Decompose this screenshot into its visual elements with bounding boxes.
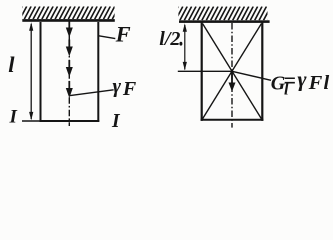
svg-text:l: l <box>8 52 15 77</box>
svg-text:F: F <box>122 78 137 100</box>
svg-text:γ: γ <box>297 67 307 92</box>
svg-text:Fl: Fl <box>308 72 331 94</box>
svg-text:I: I <box>9 107 18 128</box>
svg-text:=: = <box>283 68 296 93</box>
svg-text:l/2: l/2 <box>159 28 180 50</box>
svg-text:F: F <box>115 22 131 47</box>
svg-text:γ: γ <box>113 76 122 98</box>
svg-text:I: I <box>111 111 121 132</box>
